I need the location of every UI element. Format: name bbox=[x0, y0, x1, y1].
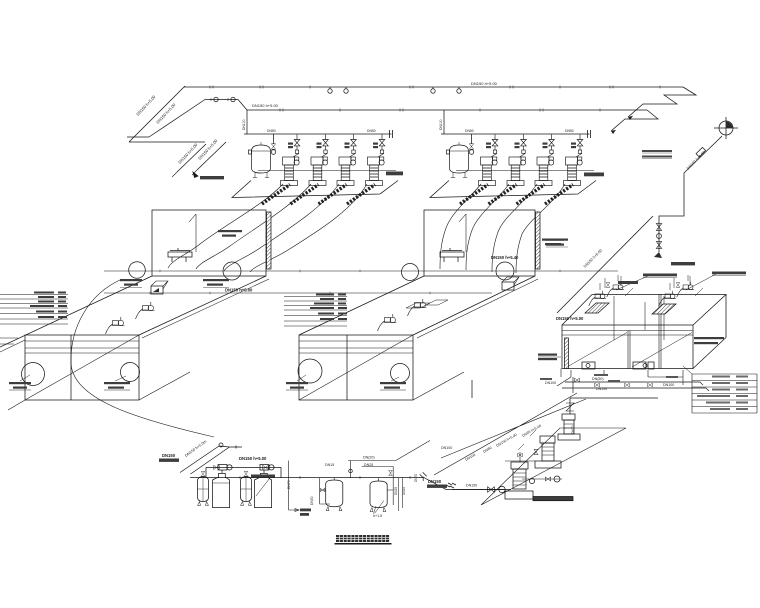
manhole circle room2 right bbox=[496, 262, 514, 280]
tank connection text bbox=[0, 0, 1, 1]
table row texts bbox=[697, 376, 748, 411]
title: shenghuo pump room axonometric (CJK) bbox=[336, 535, 389, 542]
svg-text:DN150: DN150 bbox=[162, 453, 176, 458]
tank 2 front face bbox=[299, 335, 413, 400]
manhole fitting front left bbox=[582, 362, 595, 369]
tank 1 manhole left bbox=[22, 363, 45, 386]
bypass line over filters bbox=[206, 465, 281, 477]
svg-text:DN100: DN100 bbox=[242, 119, 246, 130]
laundry pump 1 suction bbox=[450, 483, 511, 493]
svg-text:DN50: DN50 bbox=[310, 496, 314, 505]
long pipe DN150 y293 bbox=[104, 292, 492, 295]
svg-text:DN100: DN100 bbox=[441, 446, 452, 450]
hatched wall column left bbox=[561, 338, 569, 377]
svg-text:DN70: DN70 bbox=[571, 425, 575, 434]
manhole circle room1 left bbox=[129, 262, 146, 279]
wall column right of room 1 bbox=[267, 212, 272, 269]
valve stack right riser bbox=[654, 224, 662, 258]
label reserved-existing2 (CJK smudge) bbox=[427, 485, 447, 488]
tank1 inlet stub lines bbox=[0, 338, 18, 344]
svg-text:DN50: DN50 bbox=[367, 129, 376, 133]
svg-text:DN50: DN50 bbox=[267, 129, 276, 133]
upper tank room 2 box bbox=[424, 210, 535, 276]
pump 1-3 bbox=[337, 135, 356, 186]
svg-text:DN150: DN150 bbox=[596, 387, 607, 391]
laundry pump 2 valves bbox=[505, 449, 562, 483]
laundry supply lines right bbox=[562, 382, 709, 391]
foundation hatch bars group 1 bbox=[262, 185, 375, 205]
label blowdown (CJK smudge) bbox=[300, 509, 311, 516]
tank1 manhole leader texts bbox=[9, 382, 130, 389]
pump group 2 manifold DN50 bbox=[441, 130, 591, 138]
pump 1-2 bbox=[309, 135, 328, 186]
parallel pipe diagonal below room1 bbox=[142, 279, 269, 338]
staircase pipe from main1 right end bbox=[628, 87, 696, 120]
parallel pipe diagonal below room2 bbox=[417, 279, 538, 338]
label guest-room pumps (CJK smudge) bbox=[386, 172, 403, 176]
svg-text:DN25: DN25 bbox=[364, 463, 373, 467]
laundry pump 1 bbox=[505, 462, 533, 499]
hot water tank assembly top face bbox=[562, 295, 726, 369]
tank 2 manhole right bbox=[391, 364, 410, 383]
tank 2 bottom rear edge bbox=[413, 372, 464, 400]
label podium pumps (CJK smudge) bbox=[584, 173, 604, 177]
svg-text:DN(50): DN(50) bbox=[592, 377, 604, 381]
tank2 manhole leader texts bbox=[286, 382, 406, 389]
drop pipe DN50 room2 bbox=[459, 214, 466, 252]
treatment main pipe h+5.00 bbox=[190, 476, 505, 490]
wall column right of room 2 bbox=[536, 212, 541, 269]
municipal inlet diagonal pair upper bbox=[127, 86, 205, 142]
rooftop pump pair tank2 bbox=[378, 299, 427, 331]
right side tank labels bbox=[694, 337, 724, 344]
upper tank room 1 box bbox=[152, 210, 266, 276]
level leader lines tank2 bbox=[284, 297, 347, 327]
pump 2-4 bbox=[564, 135, 583, 186]
tank bottom outlet fittings bbox=[557, 370, 683, 386]
label airport terminal (CJK smudge) bbox=[618, 262, 695, 284]
carbon filter big 1 bbox=[213, 465, 233, 508]
pump 2-3 bbox=[535, 135, 554, 186]
uv sterilizer big 2 bbox=[255, 465, 275, 508]
svg-text:DN150 h+5.00: DN150 h+5.00 bbox=[471, 81, 498, 86]
pump 2-1 bbox=[479, 135, 498, 186]
pump 2-2 bbox=[507, 135, 526, 186]
top face hatch opening 1 bbox=[585, 303, 609, 313]
label connect-municipal (CJK smudge) bbox=[200, 176, 224, 179]
laundry area labels bbox=[518, 430, 536, 450]
svg-text:DN25: DN25 bbox=[394, 487, 398, 495]
top face hatch opening 2 bbox=[652, 304, 676, 314]
disinfector device room 2 bbox=[440, 248, 464, 262]
riser DN100 to pump group 1 bbox=[246, 110, 248, 134]
title underline bbox=[335, 543, 392, 545]
pressure tank loop 2 bbox=[348, 441, 430, 512]
pressure vessel group 1 bbox=[249, 134, 276, 178]
manhole circle room2 left bbox=[402, 264, 419, 281]
municipal inlet zigzag lower bbox=[172, 142, 226, 178]
svg-text:DN150: DN150 bbox=[466, 484, 477, 488]
label uv sterilizer (CJK smudge) bbox=[251, 475, 275, 478]
down pipe from tank to laundry pumps bbox=[434, 377, 586, 475]
pressure tank loop 1 bbox=[320, 478, 343, 511]
valve on main 1 at x330 bbox=[328, 87, 332, 93]
level leader lines tank1 bbox=[0, 295, 68, 325]
hot water tank front face bbox=[562, 294, 693, 369]
valve on main 1 at x433 bbox=[431, 87, 435, 93]
riser DN100 to pump group 2 bbox=[443, 110, 445, 134]
disinfector device room 1 bbox=[168, 248, 192, 262]
tank 1 manhole right bbox=[121, 363, 140, 382]
valve on main 1 at x459 bbox=[457, 87, 461, 93]
laundry pump 2 bbox=[535, 436, 561, 468]
hatch openings near room2 bbox=[406, 300, 448, 308]
drop pipe DN25 room1 bbox=[189, 214, 196, 252]
laundry label (CJK smudge) bbox=[533, 497, 573, 501]
pump 1-1 bbox=[281, 135, 300, 186]
svg-text:DN(20): DN(20) bbox=[363, 456, 375, 460]
tank2 level texts bbox=[310, 294, 347, 321]
manhole fitting front right bbox=[633, 362, 654, 369]
leader text room1 circle left bbox=[120, 279, 142, 288]
pump set leader text 1 bbox=[643, 274, 677, 278]
svg-text:DN70: DN70 bbox=[414, 474, 418, 482]
svg-text:DN100: DN100 bbox=[663, 383, 674, 387]
tank1 level texts bbox=[30, 292, 67, 319]
svg-text:DN50: DN50 bbox=[565, 129, 574, 133]
laundry pump 3 riser bbox=[472, 380, 658, 440]
svg-text:DN150 h+5.00: DN150 h+5.00 bbox=[556, 316, 584, 321]
rooftop pump pair tank1 bbox=[106, 302, 155, 334]
pump set leader text 2 bbox=[712, 272, 746, 276]
circulation pump set 1 on tank top bbox=[589, 275, 633, 306]
pump 1-4 bbox=[366, 135, 385, 186]
leader text room2 right wall bbox=[542, 239, 564, 246]
floor diagonal tank1-room1 right bbox=[139, 276, 266, 335]
tiny valve labels group1 bbox=[288, 143, 576, 149]
vertical drop right x684 bbox=[659, 171, 686, 252]
svg-text:DN15: DN15 bbox=[325, 463, 334, 467]
reserved inlet diagonal pair bbox=[180, 443, 242, 474]
svg-text:DN150 h+5.00: DN150 h+5.00 bbox=[239, 456, 267, 461]
floor diagonal tank2-room2 left bbox=[299, 276, 424, 335]
manhole circle room1 right bbox=[223, 262, 241, 280]
svg-text:DN100: DN100 bbox=[439, 119, 443, 130]
level table hot water bbox=[683, 366, 757, 413]
leader texts terminal riser bbox=[642, 150, 672, 159]
svg-text:DN150: DN150 bbox=[428, 479, 442, 484]
staircase pipe from main2 right end bbox=[611, 110, 658, 134]
leader lines pump labels bbox=[616, 274, 716, 290]
svg-text:DN150 h+5.00: DN150 h+5.00 bbox=[252, 103, 279, 108]
pipe end ticks right bbox=[420, 472, 427, 481]
slab outline group 2 bbox=[430, 171, 596, 198]
softening filter small 1 bbox=[198, 471, 209, 505]
svg-text:DN50: DN50 bbox=[465, 129, 474, 133]
supply diagonal to hot water tanks DN150 bbox=[557, 216, 653, 313]
risers above hot tank rear bbox=[605, 276, 690, 288]
suction hoses group 2 to tank room 2 bbox=[440, 184, 565, 273]
laundry room floor outline bbox=[481, 428, 626, 505]
leader text room2 h5.10 bbox=[218, 230, 242, 237]
slab outline group 1 bbox=[232, 171, 398, 198]
svg-text:DN70: DN70 bbox=[287, 480, 291, 489]
terminal riser DN150 h+4.50 diagonal bbox=[686, 136, 722, 171]
foundation hatch bars group 2 bbox=[460, 185, 573, 205]
valves on main2 left end bbox=[211, 97, 235, 101]
suction curve tank1 to treatment bbox=[71, 279, 214, 437]
tank 1 front face bbox=[25, 335, 139, 400]
tank 1 bottom rear edge bbox=[8, 372, 190, 410]
pump suction note texts bbox=[546, 239, 568, 248]
circulation pump set 2 on tank top bbox=[659, 275, 703, 306]
hot tank left leader line bbox=[538, 356, 561, 358]
pump group 1 manifold DN50 bbox=[244, 130, 393, 138]
floor diagonal tank1-room1 left bbox=[0, 276, 152, 352]
valve on main 1 at x346 bbox=[344, 87, 348, 93]
softening filter small 2 bbox=[241, 471, 252, 505]
floor diagonal tank2-room2 right bbox=[413, 276, 535, 335]
svg-text:h+1.5: h+1.5 bbox=[373, 514, 382, 518]
suction hoses group 1 to tank room 1 bbox=[168, 184, 367, 272]
tank internal pipes bbox=[614, 296, 664, 340]
label reserved-existing (CJK smudge) bbox=[159, 459, 179, 462]
blowdown drop pipe bbox=[289, 461, 300, 512]
right verticals DN25 bbox=[374, 478, 403, 514]
leader text room1 circle right bbox=[203, 279, 229, 288]
north compass symbol bbox=[714, 117, 738, 139]
hot tank left leader texts bbox=[538, 354, 557, 361]
svg-text:DN100: DN100 bbox=[545, 381, 556, 385]
pipe main DN150 top bbox=[184, 86, 683, 89]
concrete pad tank1 bbox=[151, 281, 168, 294]
tank 2 manhole left bbox=[298, 359, 322, 383]
svg-text:DN150 h+5.40: DN150 h+5.40 bbox=[491, 255, 519, 260]
pipe main DN150 second bbox=[205, 100, 647, 112]
long floor line y271 bbox=[104, 270, 618, 273]
pressure vessel group 2 bbox=[447, 134, 474, 178]
svg-text:DN25: DN25 bbox=[402, 487, 406, 495]
concrete pad tank2 bbox=[502, 277, 519, 290]
outlet labels below tank bbox=[540, 374, 678, 382]
